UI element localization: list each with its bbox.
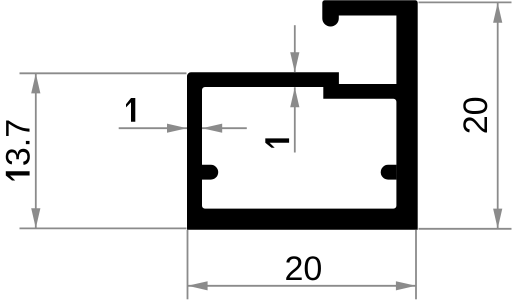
left screw boss xyxy=(202,165,218,180)
svg-text:3.7: 3.7 xyxy=(0,119,38,166)
arrow 20 bottom left xyxy=(188,281,208,290)
svg-text:20: 20 xyxy=(284,250,322,288)
dim line 1 horizontal right part xyxy=(202,127,247,129)
label 1 vertical xyxy=(265,138,289,147)
dim line 20 right xyxy=(497,3,499,229)
ext line 20 bottom left xyxy=(187,230,189,299)
arrow 20 right down xyxy=(493,209,502,229)
ext line 13.7 top xyxy=(20,72,187,74)
label 13.7 digit 1 xyxy=(6,171,30,180)
arrow 13.7 down xyxy=(31,208,40,228)
ext line 13.7 bottom xyxy=(20,227,187,229)
dim line 13.7 xyxy=(35,73,37,228)
arrow 1 pointing up xyxy=(290,87,299,107)
profile outline xyxy=(187,0,418,230)
arrow 13.7 up xyxy=(31,73,40,93)
ext line 20 bottom right xyxy=(415,230,417,299)
label 1 horizontal xyxy=(126,98,135,122)
ext line 20 right top xyxy=(419,1,512,3)
dim line 1 horizontal left part xyxy=(119,127,187,129)
arrow 20 bottom right xyxy=(396,281,416,290)
dim line 20 bottom xyxy=(188,285,416,287)
arrow 1 pointing left xyxy=(202,124,222,133)
arrow 20 right up xyxy=(493,3,502,23)
ext line 20 right bottom xyxy=(419,228,512,230)
dim line 1 vertical upper part xyxy=(294,25,296,72)
dim line 1 vertical lower part xyxy=(294,87,296,152)
arrow 1 pointing down xyxy=(290,52,299,72)
right screw boss xyxy=(381,165,397,180)
svg-text:20: 20 xyxy=(457,96,495,134)
arrow 1 pointing right xyxy=(167,124,187,133)
